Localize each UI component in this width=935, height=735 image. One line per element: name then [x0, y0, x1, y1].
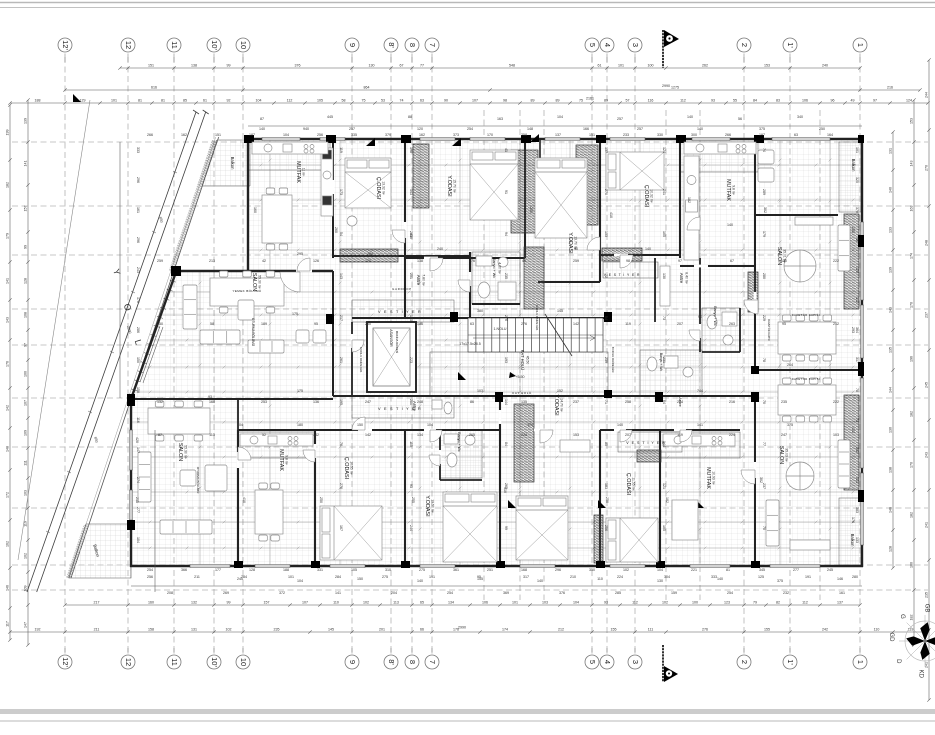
room label 9 NOLU DAİRE GİR.: [535, 305, 540, 331]
svg-text:93: 93: [208, 395, 212, 399]
room label MUTFAK: [705, 467, 716, 489]
wall bathR east: [739, 308, 741, 352]
svg-text:93: 93: [711, 98, 715, 102]
svg-text:63: 63: [470, 322, 474, 326]
left dimension line inner: [24, 98, 30, 646]
svg-text:138: 138: [191, 63, 197, 67]
svg-text:335: 335: [351, 133, 357, 137]
grid bubble 11: [167, 38, 181, 52]
svg-text:131: 131: [191, 627, 197, 631]
svg-text:410: 410: [609, 212, 613, 218]
svg-text:217: 217: [339, 315, 343, 321]
svg-text:152: 152: [557, 389, 563, 393]
svg-text:7.80 m²: 7.80 m²: [422, 274, 426, 286]
kitchen table TL (4 chairs): [262, 188, 292, 250]
svg-text:54: 54: [339, 232, 343, 236]
svg-text:146: 146: [837, 577, 843, 581]
svg-text:151: 151: [215, 133, 221, 137]
svg-text:120: 120: [781, 259, 787, 263]
svg-text:YEMEK BÖLÜMÜ: YEMEK BÖLÜMÜ: [233, 289, 262, 293]
sideboard salon R: [795, 217, 833, 225]
svg-text:KD: KD: [918, 670, 924, 679]
svg-text:162: 162: [6, 541, 10, 547]
bath fixtures R: [707, 312, 737, 345]
envelope wall upper-left vertical: [247, 139, 249, 272]
svg-text:193: 193: [504, 357, 508, 363]
svg-text:143: 143: [339, 273, 343, 279]
pier U: [171, 266, 181, 276]
svg-text:222: 222: [833, 259, 839, 263]
svg-text:140: 140: [697, 127, 703, 131]
window bedroom BR: [520, 565, 555, 568]
svg-text:9: 9: [348, 660, 357, 664]
balcony top-left (Balkon): [202, 140, 250, 186]
svg-text:128: 128: [889, 546, 893, 552]
svg-text:284: 284: [335, 575, 341, 579]
svg-text:9: 9: [348, 43, 357, 47]
svg-text:DAVETÖR KAPISI: DAVETÖR KAPISI: [792, 377, 820, 381]
svg-text:191: 191: [805, 575, 811, 579]
wardrobe strip corridor TL (hatched): [340, 249, 398, 262]
svg-text:289: 289: [762, 189, 766, 195]
svg-text:157: 157: [264, 600, 270, 604]
wardrobe strip TL (hatched): [413, 144, 429, 208]
svg-text:95: 95: [477, 575, 481, 579]
svg-text:82: 82: [776, 600, 780, 604]
axis stub 1 top: [859, 54, 861, 63]
svg-text:102: 102: [226, 627, 232, 631]
bathB west: [439, 430, 441, 480]
wall salonB/kitchenB: [237, 430, 239, 566]
svg-text:104: 104: [557, 115, 563, 119]
svg-text:302: 302: [855, 447, 859, 453]
svg-text:52: 52: [262, 433, 266, 437]
svg-text:445: 445: [327, 115, 333, 119]
svg-text:170: 170: [136, 297, 140, 303]
svg-text:121: 121: [662, 483, 666, 489]
door child BR: [620, 430, 632, 442]
svg-text:132: 132: [191, 600, 197, 604]
svg-text:63: 63: [420, 98, 424, 102]
svg-text:Banyo + Wc: Banyo + Wc: [457, 432, 461, 452]
svg-text:3: 3: [631, 43, 640, 47]
bottom dimension line 1: [63, 600, 861, 606]
svg-text:223: 223: [409, 357, 413, 363]
grid bubble 1': [783, 655, 797, 669]
top dimension line 3: [8, 98, 929, 104]
bath fixtures central: [647, 356, 693, 377]
svg-text:61: 61: [598, 63, 602, 67]
grid bubble 7: [425, 655, 439, 669]
door salon R: [744, 300, 758, 314]
svg-text:161: 161: [839, 591, 845, 595]
bed bedroom 2: [535, 158, 587, 238]
window salon right side 2: [861, 378, 864, 468]
svg-text:253: 253: [261, 400, 267, 404]
svg-text:263: 263: [729, 322, 735, 326]
grid bubble 10: [236, 655, 250, 669]
wall bathR west: [699, 258, 701, 352]
svg-text:112: 112: [680, 98, 686, 102]
svg-text:2: 2: [740, 43, 749, 47]
svg-text:254: 254: [447, 591, 453, 595]
svg-text:12: 12: [124, 41, 133, 49]
svg-text:199: 199: [6, 130, 10, 136]
svg-text:Banyo + Wc: Banyo + Wc: [713, 306, 717, 326]
room label Banyo + Wc: [659, 353, 663, 372]
svg-text:4: 4: [603, 43, 612, 47]
pier J: [858, 362, 864, 376]
svg-text:254: 254: [147, 568, 153, 572]
svg-text:132: 132: [157, 400, 163, 404]
svg-text:241: 241: [925, 522, 929, 528]
svg-text:277: 277: [793, 568, 799, 572]
door bedroom 2: [587, 237, 600, 250]
svg-text:182: 182: [665, 497, 669, 503]
svg-text:104: 104: [256, 98, 262, 102]
svg-text:153: 153: [604, 231, 608, 237]
svg-text:285: 285: [615, 591, 621, 595]
sofa salon B south: [160, 520, 212, 534]
svg-text:10': 10': [210, 657, 219, 667]
svg-text:383: 383: [855, 507, 859, 513]
svg-text:274: 274: [136, 477, 140, 483]
door openings (wall gaps): [238, 180, 755, 478]
svg-text:109: 109: [24, 430, 28, 436]
svg-text:D: D: [895, 659, 901, 664]
svg-text:372: 372: [279, 591, 285, 595]
svg-text:Antre: Antre: [679, 273, 684, 284]
wardrobe strip right lower (hatched): [844, 395, 859, 490]
svg-text:75: 75: [579, 98, 583, 102]
svg-text:1: 1: [856, 43, 865, 47]
svg-text:119: 119: [677, 433, 683, 437]
svg-text:259: 259: [573, 259, 579, 263]
round table salon R: [784, 250, 816, 282]
svg-text:333: 333: [711, 575, 717, 579]
svg-text:182: 182: [910, 512, 914, 518]
svg-text:MAKİNA DAİRESİ: MAKİNA DAİRESİ: [395, 331, 400, 354]
room label Y.ODASI: [553, 394, 564, 415]
wardrobe bedroom2 (hatched): [576, 145, 598, 225]
building floor slab (white): [131, 139, 862, 566]
bathB bottom: [440, 479, 482, 481]
svg-text:245: 245: [827, 568, 833, 572]
svg-text:SALON: SALON: [778, 446, 784, 464]
svg-text:45.50: 45.50: [526, 356, 530, 365]
road edge far (thin diagonal): [18, 100, 90, 560]
room label OTURMA BÖLÜMÜ: [196, 467, 200, 494]
wall kitchen/child TL: [332, 140, 334, 258]
sheet frame top border: [0, 2, 935, 4]
svg-text:224: 224: [729, 433, 735, 437]
svg-text:369: 369: [503, 591, 509, 595]
svg-text:175: 175: [292, 312, 298, 316]
room label Antre: [412, 401, 417, 412]
wall antre/bath TL: [469, 252, 471, 318]
sheet frame bottom border: [0, 709, 935, 714]
door corner mark: [458, 372, 466, 380]
wall childBR/kitchenBR: [659, 430, 661, 566]
svg-text:97: 97: [873, 98, 877, 102]
svg-text:276: 276: [702, 627, 708, 631]
wall shaft east: [539, 140, 541, 235]
door mark: [452, 138, 461, 146]
armchairs salon TL: [296, 330, 326, 343]
svg-text:145: 145: [557, 309, 563, 313]
wall kitchenR bottom: [680, 265, 755, 267]
svg-text:11: 11: [170, 41, 179, 49]
svg-text:135: 135: [889, 347, 893, 353]
axis stub 12' top: [64, 54, 66, 63]
svg-text:280: 280: [762, 273, 766, 279]
svg-text:940: 940: [303, 127, 309, 131]
svg-text:106: 106: [482, 600, 488, 604]
svg-text:120: 120: [417, 127, 423, 131]
svg-text:2990: 2990: [662, 84, 670, 88]
svg-text:179: 179: [762, 231, 766, 237]
room label Y.ODASI: [567, 232, 578, 253]
svg-text:224: 224: [617, 575, 623, 579]
svg-text:140: 140: [259, 127, 265, 131]
bedroomB top: [405, 429, 500, 431]
wall child/bedroom TL: [404, 140, 406, 318]
svg-text:196: 196: [910, 356, 914, 362]
svg-text:KAT HOLÜ: KAT HOLÜ: [512, 391, 532, 395]
svg-text:245: 245: [925, 382, 929, 388]
pier A: [244, 135, 254, 143]
svg-text:142: 142: [365, 433, 371, 437]
svg-text:153: 153: [573, 433, 579, 437]
svg-text:11.55 m²: 11.55 m²: [632, 477, 636, 491]
svg-text:99: 99: [504, 526, 508, 530]
svg-text:176: 176: [469, 259, 475, 263]
svg-text:10': 10': [210, 40, 219, 50]
room label Ç.ODASI: [375, 177, 386, 199]
svg-text:130: 130: [889, 427, 893, 433]
svg-text:137: 137: [604, 147, 608, 153]
north flag (top): [663, 30, 679, 68]
svg-text:8 NOLU DAİRE GİR.: 8 NOLU DAİRE GİR.: [359, 347, 364, 373]
svg-text:864: 864: [364, 85, 370, 89]
svg-text:71: 71: [855, 418, 859, 422]
svg-text:276: 276: [339, 483, 343, 489]
envelope wall diagonal (along road): [131, 272, 176, 399]
svg-text:142: 142: [573, 322, 579, 326]
svg-text:2: 2: [740, 660, 749, 664]
axis stub 7 bottom: [431, 648, 433, 654]
pier P: [596, 561, 605, 568]
svg-text:77: 77: [762, 442, 766, 446]
svg-text:MUTFAK: MUTFAK: [295, 161, 301, 183]
svg-text:255: 255: [411, 497, 415, 503]
svg-text:256: 256: [147, 575, 153, 579]
svg-text:380: 380: [477, 309, 483, 313]
kitchen bottom-right counter zone: [660, 432, 740, 458]
pier G: [754, 135, 764, 143]
window: [470, 138, 505, 141]
road edge near (double diagonal with ticks): [27, 110, 209, 592]
svg-text:375: 375: [759, 127, 765, 131]
wall kitchenB/childB: [314, 430, 316, 566]
svg-text:8: 8: [408, 660, 417, 664]
svg-text:MUTFAK: MUTFAK: [278, 449, 284, 471]
svg-text:224: 224: [677, 400, 683, 404]
svg-text:174: 174: [502, 627, 508, 631]
svg-text:187: 187: [249, 133, 255, 137]
pier C: [401, 135, 411, 143]
svg-text:10.93 m²: 10.93 m²: [712, 471, 716, 485]
svg-text:293: 293: [851, 327, 855, 333]
door bedroom B: [430, 430, 442, 442]
room label KAT HOLÜ: [520, 350, 530, 371]
svg-text:97: 97: [24, 343, 28, 347]
svg-text:126: 126: [365, 259, 371, 263]
svg-text:170: 170: [910, 302, 914, 308]
axis stub 12 top: [127, 54, 129, 63]
side table child TL: [347, 216, 357, 226]
svg-text:240: 240: [437, 247, 443, 251]
room label OTURMA BÖLÜMÜ: [251, 318, 255, 347]
svg-text:102: 102: [363, 600, 369, 604]
svg-text:201: 201: [379, 627, 385, 631]
axis stub 8' bottom: [390, 648, 392, 654]
window salon B left 2: [130, 490, 133, 520]
duct shaft upper (hatched): [511, 150, 538, 233]
envelope wall right: [861, 138, 863, 567]
balcony top-right (Balkon): [839, 142, 861, 212]
svg-text:241: 241: [662, 189, 666, 195]
salonB top wall / salonTL south wall: [131, 398, 333, 400]
pier D: [521, 135, 531, 143]
room label SALON: [776, 247, 787, 265]
svg-text:375: 375: [777, 579, 783, 583]
svg-text:148: 148: [6, 446, 10, 452]
svg-text:150: 150: [136, 357, 140, 363]
door bath B: [429, 455, 440, 466]
room label Antre: [416, 274, 426, 286]
grid bubble 2: [737, 38, 751, 52]
svg-text:109: 109: [24, 586, 28, 592]
svg-text:140: 140: [727, 223, 733, 227]
svg-text:237: 237: [762, 483, 766, 489]
svg-text:65: 65: [420, 600, 424, 604]
envelope wall left lower: [130, 398, 132, 567]
svg-text:111: 111: [24, 460, 28, 465]
lot-line hatch band mid segment: [169, 186, 202, 271]
room label Ç.ODASI: [343, 457, 354, 479]
grid bubble 1': [783, 38, 797, 52]
grid bubble 10: [236, 38, 250, 52]
svg-text:218: 218: [135, 497, 139, 503]
svg-text:167: 167: [339, 525, 343, 531]
axis stub 1' bottom: [789, 648, 791, 654]
apartment split right: [755, 369, 862, 371]
svg-text:188: 188: [35, 98, 41, 102]
svg-text:GD: GD: [888, 633, 894, 643]
window kitchen BR: [690, 565, 730, 568]
svg-text:1': 1': [786, 42, 795, 48]
svg-text:141: 141: [697, 423, 703, 427]
svg-text:90: 90: [444, 98, 448, 102]
bathroom top-left (Banyo+Wc): [472, 252, 520, 304]
svg-text:137: 137: [837, 600, 843, 604]
desk bedroom BR: [560, 440, 590, 452]
grid bubble 9: [345, 38, 359, 52]
svg-text:150: 150: [357, 577, 363, 581]
room label DAVETÖR KAPISI: [767, 319, 771, 341]
svg-text:110: 110: [874, 627, 880, 631]
sofa salon BR east: [838, 440, 850, 488]
svg-text:Ç.ODASI: Ç.ODASI: [643, 185, 649, 207]
svg-text:4.30 m²: 4.30 m²: [498, 262, 502, 274]
svg-text:142: 142: [855, 297, 859, 303]
svg-text:104: 104: [237, 423, 243, 427]
svg-text:216: 216: [729, 400, 735, 404]
svg-text:221: 221: [691, 568, 697, 572]
svg-text:Balkon: Balkon: [850, 534, 855, 547]
right dimension line outer: [925, 58, 931, 701]
grid bubble 5: [585, 655, 599, 669]
svg-text:237: 237: [925, 312, 929, 318]
svg-text:103: 103: [542, 600, 548, 604]
svg-text:104: 104: [297, 579, 303, 583]
svg-text:198: 198: [409, 147, 413, 153]
svg-text:V E S T İ Y E R: V E S T İ Y E R: [626, 440, 666, 445]
svg-text:276: 276: [504, 315, 508, 321]
room label Balkon: [230, 157, 235, 170]
grid bubble 12': [58, 38, 72, 52]
wall bedroomBR/childBR: [599, 430, 601, 566]
wall antreR west: [654, 258, 656, 322]
level marker arrow: [509, 372, 516, 378]
svg-text:67: 67: [400, 63, 404, 67]
svg-text:B NOLU DAİRE GİR.: B NOLU DAİRE GİR.: [611, 347, 616, 373]
kitchen counter R: [684, 142, 756, 154]
svg-text:157: 157: [24, 206, 28, 212]
svg-text:100: 100: [692, 600, 698, 604]
balcony bottom-right (Balkon): [839, 498, 861, 565]
svg-text:242: 242: [822, 627, 828, 631]
svg-text:89: 89: [531, 98, 535, 102]
svg-text:104: 104: [427, 423, 433, 427]
svg-text:81: 81: [161, 98, 165, 102]
svg-text:231: 231: [662, 357, 666, 363]
svg-text:182: 182: [687, 197, 691, 203]
svg-text:58: 58: [210, 322, 214, 326]
svg-text:2990: 2990: [458, 626, 466, 630]
svg-text:4: 4: [603, 660, 612, 664]
svg-text:119: 119: [339, 147, 343, 153]
right dimension line inner: [889, 130, 895, 569]
svg-text:134: 134: [448, 600, 454, 604]
room label Antre: [679, 272, 689, 284]
svg-text:280: 280: [367, 252, 373, 256]
svg-text:256: 256: [604, 525, 608, 531]
coffee table TL: [238, 300, 254, 320]
svg-text:162: 162: [181, 133, 187, 137]
svg-text:548: 548: [509, 63, 515, 67]
svg-text:G: G: [899, 614, 905, 619]
axis stub 8 bottom: [411, 648, 413, 654]
svg-text:330: 330: [657, 133, 663, 137]
svg-text:104: 104: [283, 133, 289, 137]
svg-text:92: 92: [227, 98, 231, 102]
svg-text:131: 131: [889, 148, 893, 154]
svg-text:230: 230: [851, 227, 855, 233]
kitchen counter B: [240, 434, 313, 446]
door mark: [530, 134, 539, 142]
